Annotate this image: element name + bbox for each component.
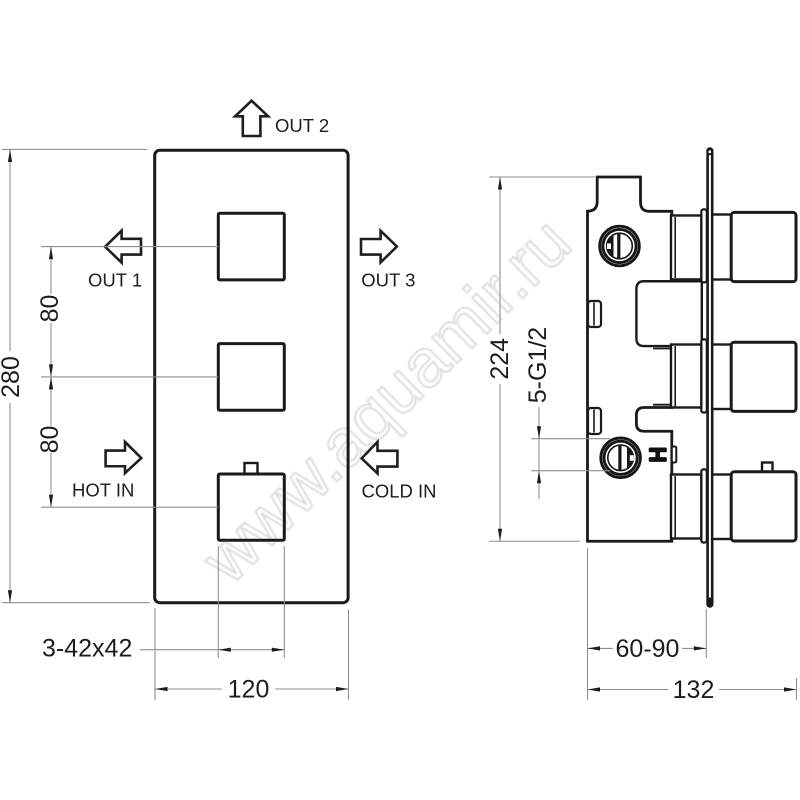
svg-text:60-90: 60-90 (616, 635, 680, 663)
svg-text:80: 80 (36, 295, 64, 323)
svg-text:3-42x42: 3-42x42 (42, 635, 132, 663)
svg-text:OUT 3: OUT 3 (361, 269, 415, 290)
svg-text:132: 132 (673, 676, 715, 704)
svg-text:120: 120 (228, 676, 270, 704)
svg-text:80: 80 (36, 426, 64, 454)
svg-text:COLD IN: COLD IN (362, 481, 437, 502)
svg-text:280: 280 (0, 356, 25, 398)
svg-text:5-G1/2: 5-G1/2 (524, 327, 552, 403)
svg-text:OUT 2: OUT 2 (275, 115, 329, 136)
svg-text:OUT 1: OUT 1 (88, 269, 142, 290)
svg-text:HOT IN: HOT IN (72, 480, 134, 501)
